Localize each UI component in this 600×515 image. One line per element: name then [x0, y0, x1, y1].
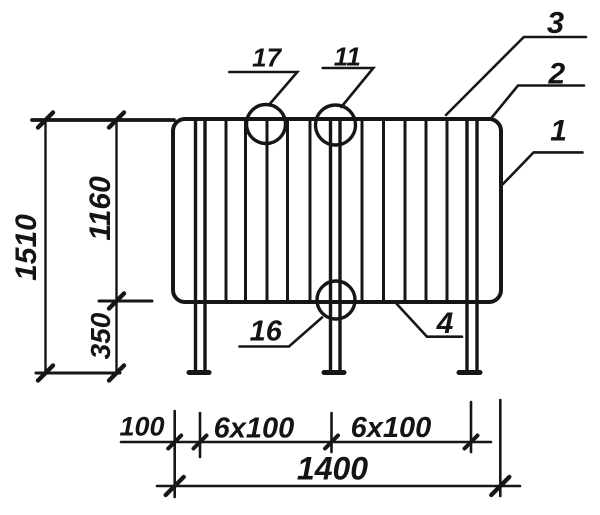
svg-text:4: 4 — [436, 307, 454, 340]
svg-text:6x100: 6x100 — [214, 413, 295, 445]
leader for label 3 — [446, 37, 586, 115]
detail circle 17 — [247, 105, 286, 144]
extension line panel right edge — [499, 400, 502, 496]
svg-text:1510: 1510 — [10, 214, 43, 281]
tick bottom dim at left post — [194, 436, 207, 449]
slat rod 8 — [404, 120, 407, 301]
leader for label 1 — [503, 152, 583, 184]
slat rod 10 — [446, 120, 449, 301]
detail circle 16 — [317, 281, 355, 319]
leader for label 17 — [229, 72, 297, 105]
svg-text:2: 2 — [547, 58, 565, 91]
tick bottom dim at right post — [465, 436, 478, 449]
post center — [324, 120, 344, 373]
slat rod 5 — [309, 120, 312, 301]
detail circle 11 — [316, 105, 356, 145]
slat rod 1 — [225, 120, 228, 301]
tick at 1160 top — [109, 113, 124, 128]
svg-text:350: 350 — [85, 312, 116, 359]
panel frame (rounded rectangle) — [173, 119, 501, 302]
slat rod 4 — [286, 120, 289, 301]
top extension line — [32, 118, 174, 122]
leader for label 4 — [395, 302, 462, 337]
svg-text:16: 16 — [250, 316, 283, 348]
extension line right post — [470, 402, 473, 452]
left dimension line 1160/350 — [115, 120, 117, 373]
bottom extension line at post feet — [36, 372, 120, 375]
svg-text:1160: 1160 — [84, 176, 117, 241]
left dimension line 1510 — [44, 120, 46, 373]
leader for label 2 — [491, 86, 584, 119]
svg-text:1400: 1400 — [297, 451, 368, 487]
slat rod 6 — [361, 120, 364, 301]
post right — [459, 120, 480, 373]
leader for label 16 — [240, 318, 323, 347]
extension line panel left edge — [173, 411, 176, 497]
post left — [189, 120, 209, 373]
slat rod 9 — [425, 120, 428, 301]
tick at 1160/350 junction — [109, 294, 124, 309]
tick bottom dim at panel left edge — [168, 436, 181, 449]
svg-text:11: 11 — [334, 41, 361, 71]
tick 1400 right — [491, 477, 509, 495]
svg-text:1: 1 — [550, 115, 567, 148]
slat rod 3 — [266, 120, 269, 301]
slat rod 7 — [382, 120, 385, 301]
svg-text:3: 3 — [547, 5, 564, 40]
tick at 1510 top — [38, 113, 53, 128]
svg-text:100: 100 — [119, 412, 164, 442]
extension line left post — [199, 413, 202, 457]
bottom dimension line (100 / 6x100 / 6x100) — [121, 441, 491, 444]
dimension line 1400 — [157, 485, 520, 488]
middle extension line at panel bottom — [99, 300, 152, 303]
svg-text:17: 17 — [252, 43, 282, 73]
leader for label 11 — [323, 68, 374, 107]
extension line center post — [330, 413, 333, 452]
tick at 350 bottom — [109, 366, 124, 381]
tick bottom dim at center post — [325, 436, 338, 449]
slat rod 2 — [244, 120, 247, 301]
tick 1400 left — [166, 477, 184, 495]
tick at 1510 bottom — [38, 366, 53, 381]
svg-text:6x100: 6x100 — [351, 412, 432, 444]
